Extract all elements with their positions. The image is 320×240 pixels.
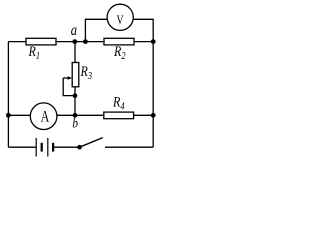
- node a2 voltmeter tap dot: [83, 39, 88, 44]
- wire middle rail (ammeter, node b, R4 row): [8, 114, 153, 116]
- battery B1 short plate 2: [52, 143, 54, 152]
- voltmeter V1 circle: [107, 4, 133, 30]
- rheostat R3 wiper arrow: [63, 77, 69, 79]
- svg-text:A: A: [41, 108, 50, 126]
- battery B1 long plate 2: [47, 138, 49, 157]
- node top-right junction dot: [151, 39, 156, 44]
- node left-middle junction dot: [6, 113, 11, 118]
- rheostat R3 body: [72, 63, 79, 87]
- resistor R2 body: [104, 38, 134, 45]
- switch S1 pivot dot: [77, 145, 82, 150]
- svg-text:R2: R2: [113, 43, 126, 63]
- svg-text:V: V: [116, 14, 124, 28]
- wire rheostat wiper return: [63, 78, 75, 96]
- resistor R4 body: [104, 112, 134, 119]
- wire bottom rail left stub to battery: [8, 146, 36, 148]
- wire right border (positive rail): [152, 42, 154, 148]
- wire voltmeter branch loop: [85, 19, 153, 41]
- wire left border (battery negative rail): [7, 42, 9, 148]
- svg-text:b: b: [72, 115, 78, 130]
- node b junction dot: [73, 113, 78, 118]
- node right-middle junction dot: [151, 113, 156, 118]
- ammeter A1 circle: [30, 103, 57, 130]
- wire R3 branch from node a to node b: [74, 42, 76, 116]
- svg-text:a: a: [71, 22, 77, 40]
- switch S1 lever (open): [80, 138, 103, 148]
- node wiper-return junction dot: [73, 94, 78, 99]
- wire switch to bottom-right corner: [105, 146, 153, 148]
- svg-text:R4: R4: [112, 93, 125, 113]
- battery B1 short plate 1: [41, 143, 43, 152]
- svg-text:R1: R1: [28, 43, 40, 63]
- svg-text:R3: R3: [80, 63, 93, 83]
- resistor R1 body: [26, 38, 56, 45]
- wire top rail (node row with R1, a, R2): [8, 41, 153, 43]
- wire battery to switch pivot: [53, 146, 79, 148]
- node a junction dot: [72, 39, 77, 44]
- battery B1 long plate 1: [35, 138, 37, 157]
